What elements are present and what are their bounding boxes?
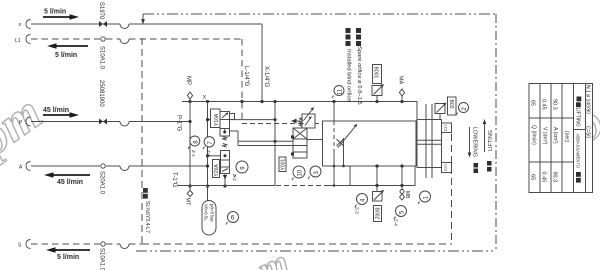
svg-text:LC1: LC1 — [444, 125, 449, 133]
svg-text:P-1"G: P-1"G — [176, 115, 182, 131]
svg-text:(sec): (sec) — [564, 131, 570, 143]
svg-text:5 l/min: 5 l/min — [44, 9, 66, 16]
svg-text:11: 11 — [338, 88, 344, 95]
svg-text:Spare orifice ø 0.8–1.5: Spare orifice ø 0.8–1.5 — [356, 46, 362, 105]
svg-text:L-1/4"G: L-1/4"G — [243, 66, 249, 87]
svg-text:A (cm²): A (cm²) — [552, 127, 558, 144]
svg-text:Z-4: Z-4 — [394, 219, 399, 226]
svg-text:6: 6 — [231, 215, 235, 222]
svg-text:LC2: LC2 — [444, 164, 449, 172]
svg-text:0.45: 0.45 — [541, 99, 547, 110]
svg-text:Z-3: Z-3 — [355, 207, 360, 214]
svg-text:MT: MT — [185, 198, 191, 207]
svg-text:90.3: 90.3 — [552, 172, 558, 183]
svg-text:p0=5 bar: p0=5 bar — [210, 204, 215, 222]
svg-text:B03: B03 — [448, 100, 454, 109]
svg-text:0.45: 0.45 — [541, 172, 547, 183]
svg-text:LIFTING: LIFTING — [575, 108, 581, 127]
svg-text:x: x — [203, 95, 206, 101]
svg-text:45 l/min: 45 l/min — [57, 179, 83, 186]
svg-text:S10A1.0: S10A1.0 — [99, 46, 105, 70]
svg-text:B001: B001 — [373, 67, 379, 79]
svg-text:N.1 ø 140/90: N.1 ø 140/90 — [585, 85, 591, 114]
svg-text:Y001: Y001 — [281, 159, 287, 171]
svg-text:25081900: 25081900 — [98, 80, 104, 107]
svg-text:ABBASSAMENTO: ABBASSAMENTO — [576, 134, 581, 169]
svg-text:5 l/min: 5 l/min — [55, 52, 77, 59]
svg-text:S1970: S1970 — [98, 2, 104, 20]
svg-text:T-1"G: T-1"G — [171, 172, 177, 188]
svg-text:MB: MB — [404, 191, 410, 199]
svg-text:Installed blind orifice: Installed blind orifice — [346, 49, 352, 102]
svg-text:5 l/min: 5 l/min — [57, 254, 79, 261]
svg-text:Y20A: Y20A — [214, 164, 220, 177]
svg-text:65: 65 — [530, 174, 536, 180]
svg-text:Y10A: Y10A — [214, 113, 220, 126]
svg-text:10: 10 — [298, 169, 304, 176]
svg-text:MP: MP — [185, 76, 191, 85]
svg-text:S20A1.0: S20A1.0 — [99, 171, 105, 195]
svg-text:90.3: 90.3 — [552, 99, 558, 110]
svg-text:C=50: C=50 — [585, 126, 591, 138]
svg-text:L1: L1 — [15, 38, 21, 44]
svg-text:Z-2: Z-2 — [232, 174, 237, 181]
svg-text:V0=0.5L: V0=0.5L — [204, 204, 209, 221]
svg-text:V (dm³): V (dm³) — [542, 127, 548, 145]
svg-text:S10A1.0: S10A1.0 — [99, 248, 105, 270]
svg-text:MA: MA — [398, 76, 404, 85]
svg-text:65: 65 — [530, 100, 536, 106]
svg-text:45 l/min: 45 l/min — [43, 107, 69, 114]
svg-text:Z-1: Z-1 — [191, 150, 196, 157]
svg-text:X-1/4"G: X-1/4"G — [263, 66, 269, 87]
svg-text:LIFTING: LIFTING — [488, 130, 494, 151]
svg-text:B002: B002 — [374, 208, 380, 220]
svg-text:LOWERING: LOWERING — [472, 127, 478, 157]
svg-text:SL%6Y3.4-L7: SL%6Y3.4-L7 — [144, 201, 150, 233]
svg-text:Z-2: Z-2 — [206, 150, 211, 157]
svg-text:Q (l/min): Q (l/min) — [531, 125, 537, 145]
